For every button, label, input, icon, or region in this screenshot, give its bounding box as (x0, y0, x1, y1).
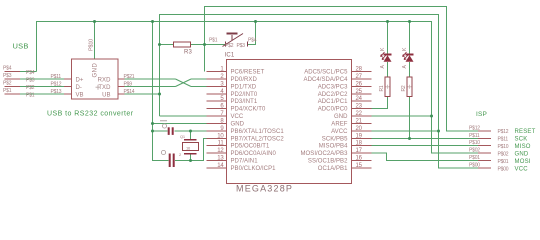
IC1 right pin numbers (356, 67, 363, 170)
wire LED1 to R1 (387, 62, 389, 77)
svg-text:PD5/OC0B/T1: PD5/OC0B/T1 (231, 144, 271, 150)
svg-text:MISO: MISO (515, 144, 531, 150)
svg-text:P$10: P$10 (89, 39, 95, 51)
wire button right stub to GND (248, 22, 256, 45)
svg-text:MOSI: MOSI (515, 159, 531, 165)
resistor R3 (174, 42, 193, 56)
junction pin8 GND / rail (151, 122, 154, 125)
svg-text:AREF: AREF (331, 122, 347, 128)
svg-text:P$9: P$9 (124, 82, 133, 88)
svg-text:13: 13 (217, 156, 224, 162)
junction pin22 GND / GND vertical (430, 115, 433, 118)
resistor R2 (401, 77, 412, 97)
wire TXD to IC pin3 (191, 86, 207, 88)
svg-text:P$4: P$4 (26, 70, 35, 76)
svg-text:P$13: P$13 (51, 89, 62, 95)
junction AVCC / VCC vertical (437, 130, 440, 133)
IC1 left pin numbers (217, 67, 224, 170)
svg-text:R1: R1 (379, 85, 385, 91)
svg-text:P$01: P$01 (469, 155, 480, 161)
junction C1 / GND rail (151, 130, 154, 133)
wire RESET bus top (205, 7, 479, 132)
junction crystal top / XTAL1 (189, 130, 192, 133)
svg-text:RESET: RESET (515, 129, 536, 135)
resistor R1 (379, 77, 390, 97)
junction R2 / SCK net (408, 137, 411, 140)
wire RXD to IC pin2 (191, 78, 207, 80)
svg-text:P$02: P$02 (498, 152, 509, 158)
svg-text:GND: GND (93, 63, 99, 78)
wire GND bus top (37, 22, 479, 154)
svg-text:SCK/PB5: SCK/PB5 (322, 137, 348, 143)
wire USB D+ (20, 78, 71, 80)
svg-text:20: 20 (356, 126, 363, 132)
svg-text:USB: USB (13, 42, 29, 51)
junction R3 / VCC rail (158, 43, 161, 46)
wire LED2 to R2 (409, 62, 411, 77)
junction crystal GND rail / GND bus (151, 20, 154, 23)
svg-text:R3: R3 (184, 50, 193, 56)
IC1 right pin stubs (352, 72, 372, 169)
svg-text:IC1: IC1 (225, 53, 235, 59)
svg-text:USB to RS232 converter: USB to RS232 converter (47, 111, 134, 118)
svg-text:MISO/PB4: MISO/PB4 (319, 144, 348, 150)
svg-text:ADC4/SDA/PC4: ADC4/SDA/PC4 (304, 77, 349, 83)
wire R3 right lead to reset node (191, 44, 205, 46)
svg-text:P$3: P$3 (237, 43, 246, 49)
svg-text:P$4: P$4 (248, 38, 257, 44)
svg-text:SCK: SCK (515, 137, 528, 143)
svg-text:PD1/TXD: PD1/TXD (231, 85, 257, 91)
wire RXD from converter (125, 78, 176, 80)
connector USB labels (3, 42, 35, 99)
wire pin8 GND (153, 123, 207, 125)
converter right pin stubs (118, 78, 125, 80)
svg-text:18: 18 (356, 141, 363, 147)
converter left pin stubs (64, 78, 72, 80)
svg-text:P$2: P$2 (225, 43, 234, 49)
wire USB VBUS (20, 93, 71, 95)
svg-text:ADC2/PC2: ADC2/PC2 (318, 92, 348, 98)
wire VCC to pin7 (160, 115, 207, 117)
svg-text:GND: GND (334, 114, 348, 120)
svg-text:P$02: P$02 (469, 148, 480, 154)
svg-text:P$10: P$10 (469, 140, 480, 146)
svg-text:P$3: P$3 (26, 78, 35, 84)
svg-text:P$21: P$21 (124, 74, 135, 80)
svg-text:VB: VB (76, 93, 84, 99)
svg-text:28: 28 (356, 67, 363, 73)
svg-text:P$1: P$1 (3, 88, 12, 94)
svg-text:P$14: P$14 (124, 89, 135, 95)
IC1 left pin names (231, 70, 285, 173)
svg-text:PD2/INT0: PD2/INT0 (231, 92, 258, 98)
LED2 (402, 47, 414, 69)
svg-text:24: 24 (356, 96, 363, 102)
svg-text:P$3: P$3 (3, 73, 12, 79)
IC1 right pin names (301, 70, 349, 173)
svg-text:PD0/RXD: PD0/RXD (231, 77, 258, 83)
LED1 (380, 47, 392, 69)
svg-text:19: 19 (356, 134, 363, 140)
wire USB GND stub row (20, 71, 37, 73)
wire XTAL1 after cap (175, 130, 207, 132)
wire XTAL1 row pin9 (153, 130, 168, 132)
svg-text:15: 15 (356, 163, 363, 169)
svg-text:26: 26 (356, 82, 363, 88)
wire pin22 GND right (372, 115, 432, 117)
svg-text:ADC3/PC3: ADC3/PC3 (318, 85, 348, 91)
svg-text:ADC0/PC0: ADC0/PC0 (318, 107, 348, 113)
svg-text:12: 12 (217, 148, 224, 154)
wire R3 left lead (160, 44, 174, 46)
svg-text:R2: R2 (401, 85, 407, 91)
svg-text:P$12: P$12 (498, 129, 509, 135)
svg-text:PB6/XTAL1/TOSC1: PB6/XTAL1/TOSC1 (231, 129, 285, 135)
svg-text:SS/OC1B/PB2: SS/OC1B/PB2 (308, 159, 348, 165)
svg-text:P$1: P$1 (209, 38, 218, 44)
svg-text:PD6/OC0A/AIN0: PD6/OC0A/AIN0 (231, 151, 277, 157)
svg-text:P$2: P$2 (3, 81, 12, 87)
junction button / GND bus (254, 20, 257, 23)
wire SCK pin19 to ISP (372, 138, 479, 140)
svg-text:P$2: P$2 (26, 85, 35, 91)
svg-text:UB: UB (102, 93, 110, 99)
capacitor C1 (160, 121, 174, 135)
svg-text:P$1: P$1 (26, 93, 35, 99)
svg-text:PB7/XTAL2/TOSC2: PB7/XTAL2/TOSC2 (231, 137, 285, 143)
wire VCC bus top (160, 15, 479, 169)
capacitor C2 (161, 150, 174, 167)
svg-text:P$12: P$12 (469, 126, 480, 132)
wire USB D- (20, 86, 71, 88)
converter U5 USB-to-RS232 box (47, 39, 135, 118)
svg-text:MEGA328P: MEGA328P (236, 184, 293, 194)
svg-text:21: 21 (356, 119, 363, 125)
junction LED2 / GND bus (408, 20, 411, 23)
wire TXD from converter (125, 86, 176, 88)
wire R1 to pin23 (372, 97, 388, 109)
svg-text:P$01: P$01 (498, 159, 509, 165)
svg-text:TXD: TXD (98, 85, 111, 91)
svg-text:10: 10 (217, 134, 224, 140)
svg-text:AVCC: AVCC (331, 129, 348, 135)
svg-text:P$11: P$11 (498, 137, 509, 143)
svg-text:D-: D- (76, 85, 82, 91)
svg-text:VCC: VCC (231, 114, 244, 120)
ISP connector (478, 131, 491, 168)
connector USB pins (5, 72, 21, 95)
junction crystal bottom / XTAL2 (189, 159, 192, 162)
svg-text:OC1A/PB1: OC1A/PB1 (318, 166, 348, 172)
wire XTAL2 after cap to pin10 (175, 139, 207, 161)
push button S1 (223, 34, 248, 47)
svg-text:PD4/XCK/T0: PD4/XCK/T0 (231, 107, 266, 113)
svg-text:P$10: P$10 (498, 144, 509, 150)
svg-text:P$00: P$00 (469, 163, 480, 169)
svg-text:23: 23 (356, 104, 363, 110)
svg-text:P$11: P$11 (51, 74, 62, 80)
junction converter GND / GND bus (93, 20, 96, 23)
svg-text:PC6/RESET: PC6/RESET (231, 70, 265, 76)
IC1 left pin stubs (207, 72, 227, 169)
svg-text:ISP: ISP (476, 111, 487, 118)
svg-text:RXD: RXD (98, 78, 111, 84)
svg-text:25: 25 (356, 89, 363, 95)
svg-text:22: 22 (356, 111, 363, 117)
svg-text:GND: GND (515, 152, 529, 158)
svg-text:P$12: P$12 (51, 82, 62, 88)
wire button left stub (205, 44, 226, 46)
wire crystal GND rail (153, 22, 169, 161)
svg-text:27: 27 (356, 74, 363, 80)
svg-text:P$00: P$00 (498, 167, 509, 173)
wire MISO pin18 to ISP (372, 145, 479, 147)
junction converter UB / VCC rail (158, 93, 161, 96)
svg-text:PB0/CLKO/ICP1: PB0/CLKO/ICP1 (231, 166, 277, 172)
wire crystal top stub (190, 131, 192, 140)
svg-text:PD7/AIN1: PD7/AIN1 (231, 159, 259, 165)
svg-text:P$4: P$4 (3, 66, 12, 72)
wire R2 to SCK (409, 97, 411, 139)
junction LED1 / GND bus (386, 20, 389, 23)
wire UB to VCC rail (125, 93, 160, 95)
svg-text:MOSI/OC2A/PB3: MOSI/OC2A/PB3 (301, 151, 349, 157)
wire RXD/TXD crossover (176, 79, 192, 87)
wire AVCC pin20 (372, 130, 439, 132)
junction node RESET at R3/button (203, 43, 206, 46)
crystal Q1 (179, 134, 199, 157)
svg-text:ADC1/PC1: ADC1/PC1 (318, 99, 348, 105)
svg-text:ADC5/SCL/PC5: ADC5/SCL/PC5 (304, 70, 348, 76)
svg-text:17: 17 (356, 148, 363, 154)
svg-text:PD3/INT1: PD3/INT1 (231, 99, 258, 105)
IC1 ATmega328P box (225, 53, 352, 194)
svg-text:14: 14 (217, 163, 224, 169)
wire crystal bottom stub (190, 154, 192, 161)
wire converter GND drop (94, 22, 96, 60)
svg-text:16: 16 (356, 156, 363, 162)
svg-text:GND: GND (231, 122, 245, 128)
svg-text:11: 11 (218, 141, 225, 147)
wire MOSI pin17 jog to ISP (372, 153, 479, 161)
wire LED1 top (387, 22, 389, 55)
svg-text:VCC: VCC (515, 167, 529, 173)
wire LED2 top (409, 22, 411, 55)
svg-text:P$11: P$11 (469, 133, 480, 139)
svg-text:D+: D+ (76, 78, 84, 84)
